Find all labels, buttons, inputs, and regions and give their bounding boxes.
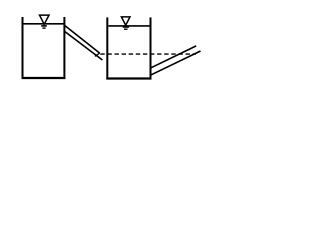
pipe P1 upper line xyxy=(65,25,100,53)
tank T1 water surface symbol tick 1 xyxy=(41,25,47,27)
tank T1 water level line xyxy=(23,23,63,25)
tank T2 water level line xyxy=(108,25,149,27)
tank T1 right wall xyxy=(63,17,65,79)
tank T2 water surface symbol triangle xyxy=(121,17,130,25)
pipe P2 upper line xyxy=(151,46,196,68)
tank T2 water surface symbol tick 2 xyxy=(124,28,128,30)
tank T2 left wall xyxy=(106,17,108,79)
pipe P2 lower line xyxy=(151,51,200,75)
tank T1 water surface symbol tick 2 xyxy=(42,27,45,29)
tank T1 bottom xyxy=(22,77,66,79)
tank T1 left wall xyxy=(22,17,24,79)
pipe P1 outlet arrow barb xyxy=(95,53,100,56)
tank T2 right wall xyxy=(150,17,152,79)
pipe P1 lower line xyxy=(65,31,103,60)
tank T2 bottom xyxy=(106,77,151,79)
datum dashed line xyxy=(100,53,196,55)
tank T1 water surface symbol triangle xyxy=(40,15,50,24)
tank T2 water surface symbol tick 1 xyxy=(123,26,129,28)
